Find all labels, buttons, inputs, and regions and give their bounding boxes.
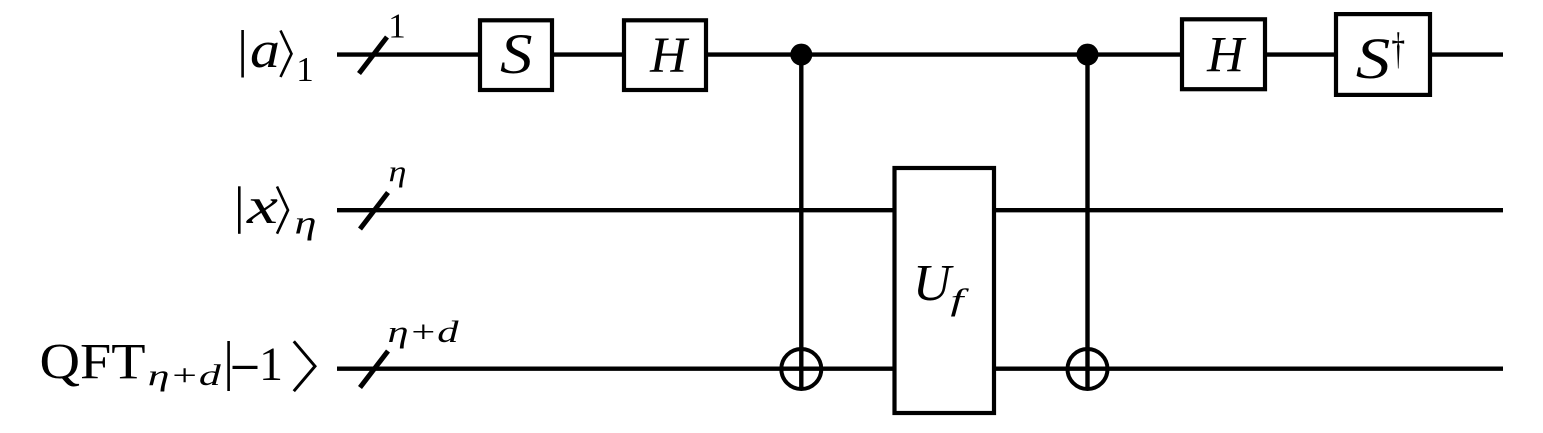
- svg-text:a: a: [250, 22, 280, 79]
- svg-text:QFT: QFT: [40, 335, 146, 391]
- svg-text:x: x: [246, 178, 278, 235]
- svg-text:1: 1: [388, 7, 406, 46]
- svg-text:η: η: [389, 155, 407, 188]
- svg-text:H: H: [649, 28, 690, 84]
- svg-text:U: U: [913, 255, 954, 312]
- svg-text:H: H: [1206, 28, 1247, 84]
- svg-text:S: S: [500, 23, 533, 86]
- svg-text:1: 1: [259, 338, 283, 391]
- svg-text:†: †: [1392, 25, 1406, 74]
- svg-text:η: η: [295, 206, 317, 242]
- svg-text:S: S: [1356, 26, 1391, 91]
- svg-text:η+d: η+d: [148, 359, 222, 392]
- svg-text:η+d: η+d: [388, 314, 460, 349]
- svg-text:1: 1: [296, 50, 314, 89]
